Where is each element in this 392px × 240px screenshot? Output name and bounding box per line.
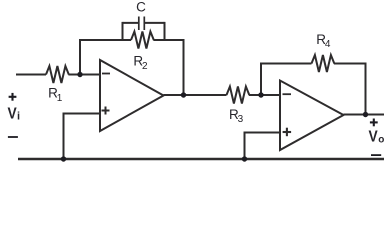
polarity - for Vo — [371, 154, 381, 156]
op-amp U1 — [100, 60, 164, 131]
node: ground junction left — [61, 156, 66, 161]
svg-text:V: V — [8, 105, 18, 122]
wire: feedback horizontal right segment — [153, 39, 184, 41]
resistor R1 — [46, 66, 69, 83]
svg-text:V: V — [369, 129, 379, 146]
resistor R2 — [131, 32, 154, 49]
svg-text:o: o — [378, 135, 384, 146]
wire: input from Vi to R1 — [16, 74, 46, 76]
svg-text:2: 2 — [142, 61, 148, 72]
svg-text:C: C — [136, 0, 146, 15]
svg-text:4: 4 — [325, 39, 331, 50]
node D: output node — [363, 112, 368, 117]
wire: riser from node C up to R4 — [260, 63, 262, 95]
wire: feedback horizontal left segment — [79, 39, 131, 41]
resistor R4 — [312, 55, 335, 72]
wire: U2 non-inverting input to ground rail — [245, 133, 281, 160]
wire: R4 down to output node — [365, 63, 367, 115]
svg-text:i: i — [17, 111, 20, 123]
wire: bottom ground rail — [18, 158, 384, 160]
wire: U1 output to R3 — [164, 94, 227, 96]
wire: R1 to U1 inverting input — [68, 74, 100, 76]
svg-text:3: 3 — [238, 114, 244, 125]
svg-text:1: 1 — [57, 93, 63, 104]
wire: feedback right vertical down to U1 output node — [183, 39, 185, 95]
polarity + for Vo — [370, 119, 378, 127]
polarity - for Vi — [8, 136, 18, 138]
node: ground junction right — [242, 156, 247, 161]
wire: capacitor branch top-right segment — [144, 22, 164, 24]
wire: R4 left segment — [260, 63, 312, 65]
wire: capacitor branch left riser — [122, 22, 124, 40]
wire: R3 to U2 inverting input — [249, 94, 280, 96]
wire: feedback riser from node A — [79, 40, 81, 76]
resistor R3 — [227, 87, 250, 104]
op-amp U2 — [280, 81, 344, 151]
polarity + for Vi — [9, 93, 17, 101]
wire: U2 output to Vo — [344, 114, 385, 116]
node A: junction R1 / feedback / U1 inverting input — [77, 72, 82, 77]
wire: capacitor branch right riser — [164, 22, 166, 40]
capacitor C — [139, 17, 145, 31]
wire: U1 non-inverting input to ground rail — [64, 114, 101, 160]
node C: junction R3 / R4 / U2 inverting input — [258, 92, 263, 97]
node B: U1 output / feedback junction — [181, 92, 186, 97]
wire: R4 right segment — [334, 63, 367, 65]
wire: capacitor branch top-left segment — [123, 22, 139, 24]
